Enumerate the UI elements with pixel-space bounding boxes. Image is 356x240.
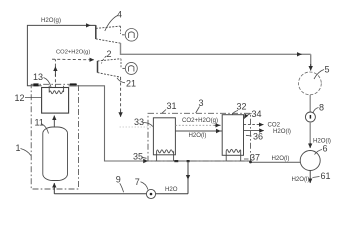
svg-text:9: 9 (116, 174, 121, 184)
boundary unit 1 dash-dot box (31, 84, 78, 189)
svg-text:21: 21 (126, 79, 136, 89)
wire H2O(l) product out of column 32 (244, 130, 264, 132)
wire faint feed into column 31 (120, 126, 153, 128)
svg-text:12: 12 (15, 93, 25, 103)
coil 13 inside exchanger 12 (49, 86, 63, 94)
pump 7 (146, 189, 155, 198)
wire H2O return into vessel 11 bottom (53, 186, 55, 194)
svg-text:7: 7 (135, 177, 140, 187)
svg-text:CO2+H2O(g): CO2+H2O(g) (56, 50, 90, 56)
svg-text:61: 61 (321, 171, 331, 181)
svg-text:H2O(l): H2O(l) (273, 128, 291, 135)
wire pump suction line to vessel 11 (54, 193, 188, 195)
svg-text:2: 2 (107, 49, 112, 59)
svg-text:31: 31 (167, 101, 177, 111)
svg-text:11: 11 (35, 117, 44, 127)
svg-text:1: 1 (16, 143, 21, 153)
column 31 vessel (153, 118, 175, 155)
svg-text:36: 36 (253, 131, 263, 141)
svg-text:H2O(l): H2O(l) (189, 132, 207, 139)
svg-text:H2O: H2O (165, 186, 178, 193)
svg-text:3: 3 (199, 98, 204, 108)
wire water line from exchanger 12 right across and down to coils (69, 86, 301, 163)
svg-text:4: 4 (117, 10, 122, 20)
coil 35 in column 31 (157, 150, 174, 155)
svg-text:CO2+H2O(g): CO2+H2O(g) (182, 117, 218, 124)
wire CO2 product out dashed (244, 124, 264, 126)
turbine T4 (96, 25, 121, 43)
turbine T2 (98, 59, 122, 78)
coil 37 in column 32 (226, 149, 241, 155)
junction node at box 3 outlet (249, 161, 252, 164)
wire H2O(l) discharge below mixer 6 (309, 171, 311, 184)
wire dashed CO2+H2O(g) line from exchanger 12 to turbine 2 (54, 59, 56, 87)
generator 21 of turbine 2 (122, 62, 137, 74)
condenser 5 (299, 72, 322, 95)
wire turbine 2 exhaust dashed down to column 31 (120, 77, 122, 114)
svg-text:13: 13 (33, 72, 43, 82)
wire H2O(g) steam pipe from exchanger 12 up-left and across to turbine 4 (27, 25, 90, 85)
junction node at T to pump line (187, 160, 190, 162)
wire vessel 11 vapor to exchanger 12 (53, 116, 55, 128)
pump 8 (305, 112, 315, 122)
svg-text:37: 37 (250, 152, 260, 162)
svg-text:H2O(g): H2O(g) (41, 17, 61, 24)
black crossing mark right (70, 83, 77, 86)
svg-text:35: 35 (133, 152, 143, 162)
svg-text:33: 33 (134, 117, 144, 127)
junction node coil 35 outlet (174, 160, 178, 162)
generator of turbine 4 (122, 29, 138, 42)
wire inlet stub into turbine 4 (90, 24, 96, 26)
svg-text:5: 5 (325, 65, 330, 75)
svg-text:6: 6 (323, 144, 328, 154)
svg-text:32: 32 (237, 102, 247, 112)
wire turbine 4 exhaust to condenser 5 (121, 43, 311, 54)
wire condenser 5 to pump 8 (309, 95, 311, 112)
heat exchanger 12 box (42, 88, 69, 114)
svg-text:8: 8 (319, 103, 324, 113)
svg-text:34: 34 (252, 109, 262, 119)
mixer 6 (300, 151, 320, 171)
coil 35 stubs to water line (157, 155, 174, 161)
svg-text:H2O(l): H2O(l) (272, 155, 290, 162)
svg-text:H2O(l): H2O(l) (292, 176, 310, 183)
coil 37 stubs to water line (226, 155, 241, 161)
wire down from water line to pump line (187, 161, 189, 194)
black crossing mark left (33, 83, 38, 86)
wire pump 8 down to mixer 6 (309, 122, 311, 147)
vessel 11 (43, 127, 68, 181)
column 32 vessel (222, 115, 243, 156)
boundary 3 dash-dot box around exchanger columns (148, 113, 251, 161)
